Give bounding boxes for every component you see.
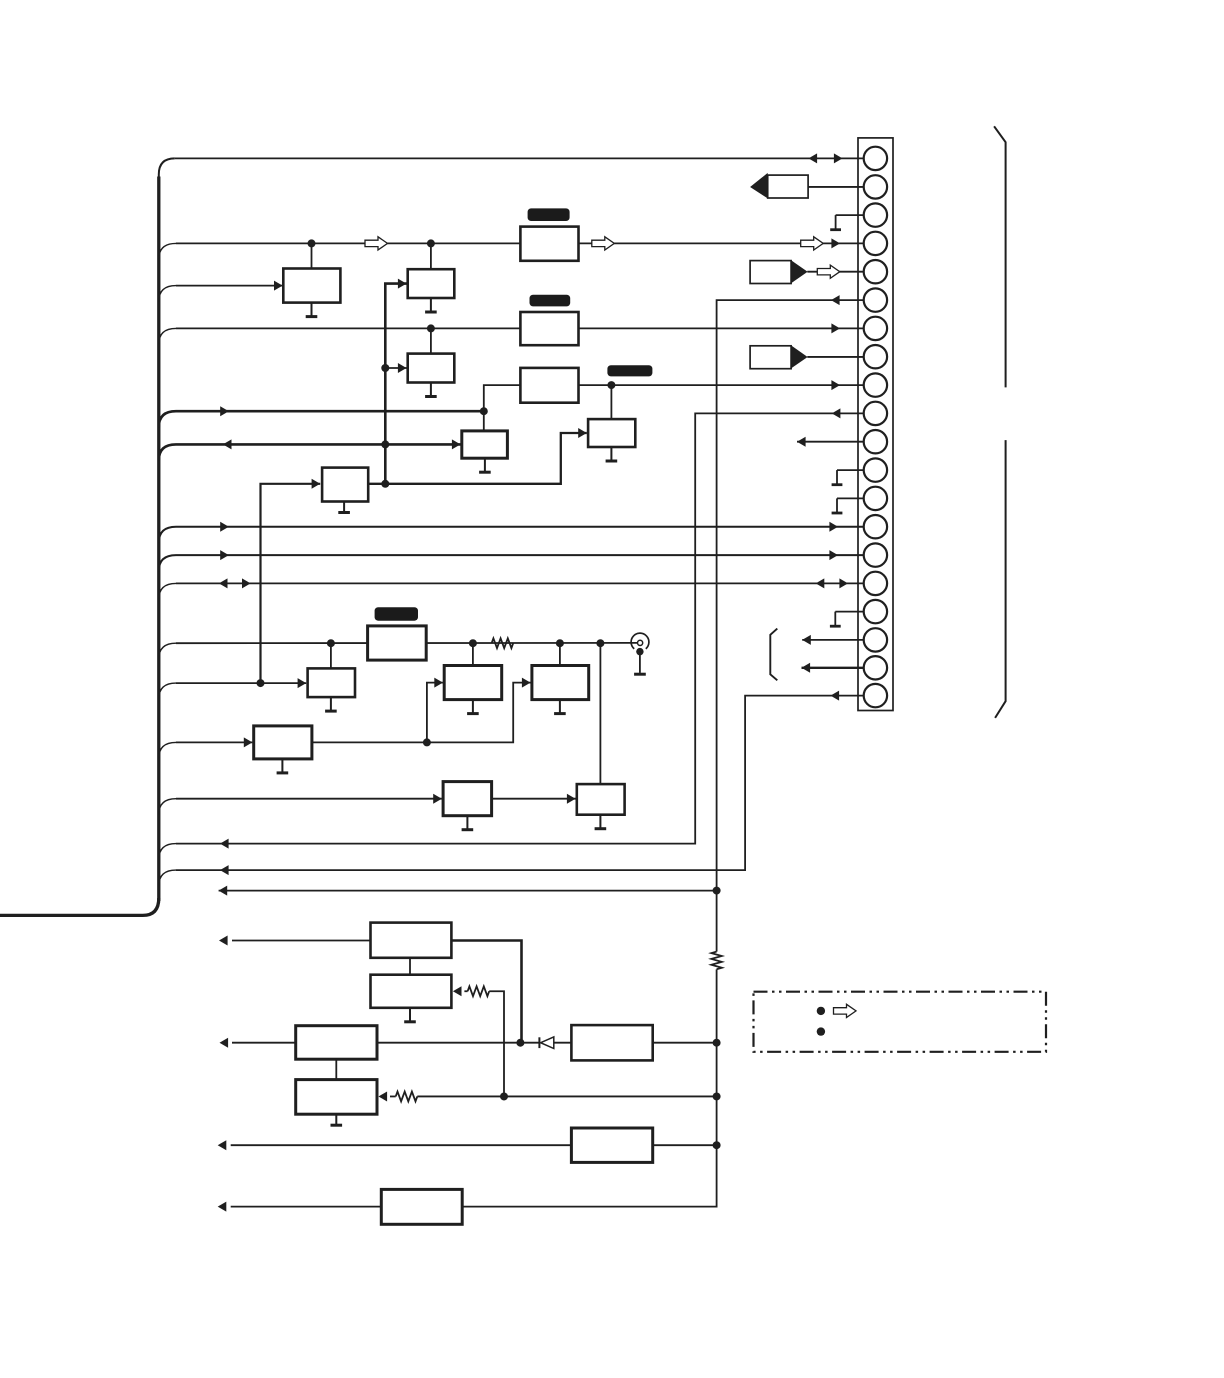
junction riser/R4 line [500,1092,508,1100]
pin 9 circle [864,373,887,396]
junction w10 above U13 [556,639,564,647]
arrowhead C1 output [219,936,228,946]
junction above U9 [607,381,615,389]
wire C3 right to diode and C5 [377,1042,539,1044]
arrowhead w9 bidir near trunk right [242,578,251,588]
ground below U15 [599,815,601,829]
ground below U9 [610,447,612,461]
wire pin 19 stub with arrow [802,667,876,669]
wire U14 output to U13 input [312,683,531,743]
wire w13 trunk to U16 input [159,799,176,815]
node A junction on w5 [480,407,488,415]
arrowhead w12 into U14 [244,737,253,747]
wire w10 trunk to jack J2 [159,643,176,659]
wire w8 trunk to pin 15 [159,555,176,571]
wire w4 trunk to pin 7 [159,328,176,344]
arrowhead w9 bidir near pin left [816,578,825,588]
wire node A stub down to U7 top [483,411,485,431]
wire U16 output to U15 input [492,798,576,800]
legend hollow flow arrow [834,1004,857,1017]
wire stub down to U9 top [610,385,612,419]
resistor R4 [396,1092,418,1102]
label bar L2 above U2 [530,295,571,307]
arrowhead pin 20 outgoing [831,691,840,701]
legend dash-dot box [754,992,1047,1052]
arrowhead bus B into U5 [398,279,407,289]
junction bus B on U8 output line [381,480,389,488]
junction w10 above U12 [469,639,477,647]
pin 7 circle [864,317,887,340]
arrowhead into C4 right side [379,1091,388,1101]
pin 18 circle [864,628,887,651]
arrowhead w16 outgoing left [219,886,228,896]
junction w10 above U10 [327,639,335,647]
arrowhead w5 direction [220,406,229,416]
wire riser to U12 input [427,683,443,743]
wire w7 trunk to pin 14 [159,527,176,543]
wire stub w2 down to U5 top [430,243,432,269]
block C4 [296,1080,377,1115]
arrowhead w9 bidir near pin right [839,578,848,588]
legend bullet 1 [817,1007,825,1015]
block C2 [371,975,452,1008]
pin 20 circle [864,684,887,707]
wire stub w10 down to U13 top [559,643,561,665]
wire pin 6 net down to U20 (long vertical) [717,300,864,952]
diode D1 (cathode left) [538,1037,540,1048]
block U13 [532,666,589,700]
label bar L4 above M1 [375,607,418,621]
legend bullet 2 [817,1027,825,1035]
arrowhead w11 into U10 [298,678,307,688]
flag tag at pin 2 (left pennant) [768,175,808,198]
block U8 [322,468,368,502]
wire stub w10 down to U12 top [472,643,474,665]
wire C6 output to left with arrow [231,1144,572,1146]
block U6 [408,354,455,383]
arrowhead w8 into pin 15 [829,550,838,560]
flag tag at pin 8 (right pennant) [750,346,791,369]
junction bus B branch to U6 [381,364,389,372]
wire bus B branch into U6 [385,367,406,369]
arrowhead w8 direction near trunk [220,550,229,560]
pin 16 circle [864,572,887,595]
wire w9 trunk to pin 16 [159,583,176,599]
junction R4 line on pin6 net [713,1092,721,1100]
wire riser from w11 to U8 input [261,484,321,683]
block C1 [371,923,452,958]
block U5 [408,269,455,298]
wire long stub w10 down to U15 top [599,643,601,784]
wire C3 output to left with arrow [232,1042,296,1044]
arrowhead into U9 [578,428,587,438]
connector J1 body [858,138,893,711]
arrowhead into U12 [434,678,443,688]
wire w12 trunk to U14 input [159,742,176,758]
pin 5 circle [864,260,887,283]
arrowhead w1 bidirectional right [834,153,843,163]
junction on w2 above U4 [308,239,316,247]
pin 10 circle [864,402,887,425]
arrowhead pin 11 outgoing [797,437,806,447]
junction riser to U12 [423,738,431,746]
flag tag at pin 5 (right pennant) [750,261,791,284]
wire pin 10 net left and down to trunk (w14) [176,413,864,843]
junction w6 with vertical bus B [381,440,389,448]
wire C7 output to left with arrow [231,1206,382,1208]
arrowhead w15 toward trunk [220,865,229,875]
wire R4 line to pin6 net [417,1095,716,1097]
wire C1 output to left with arrow [232,940,371,942]
resistor R1 on w10 [492,638,514,648]
block C7 (U20) [381,1189,462,1224]
wire pin 20 net left and down to trunk (w15) [176,696,864,871]
arrowhead into pin 9 [831,380,840,390]
wire stub w2 down to U4 top [311,243,313,268]
resistor R2 [468,986,490,996]
wire U8 output to U9 input [368,433,587,484]
hollow flow arrow after U1 [592,237,615,250]
block U4 [283,269,340,303]
wire C2 input with resistor R2 [464,990,467,992]
pin 19 circle [864,656,887,679]
pin 6 circle [864,288,887,311]
arrowhead w2 into pin 4 [831,238,840,248]
wire trunk bottom exit to left edge [0,898,159,915]
junction w16 with pin 6 net [713,887,721,895]
wire w11 trunk to U10 input [159,683,176,699]
arrowhead pin 19 outgoing [802,663,811,673]
ground below U16 [466,816,468,830]
pin 12 circle [864,458,887,481]
wire C1 right riser down to C3 output line [451,941,521,1043]
wire w6 trunk to U7 input [159,444,176,460]
arrowhead into U15 [567,794,576,804]
arrowhead pin 10 outgoing [832,408,841,418]
block U3 [520,368,578,403]
pin 13 circle [864,487,887,510]
hollow flow arrow on w2 [365,237,388,250]
arrowhead w6 toward trunk [223,439,232,449]
junction w11 riser to U8 [257,679,265,687]
wire pin 18 stub with arrow [802,639,875,641]
junction on w4 above U6 [427,324,435,332]
wire stub C3 bottom to C4 top [335,1059,337,1079]
ground below U10 [330,697,332,711]
ground below jack J2 [634,673,646,676]
bracket lower right (group brace bottom) [995,440,1006,718]
pin 4 circle [864,232,887,255]
block U15 [577,784,625,815]
block U12 [444,666,502,700]
ground below U13 [559,700,561,714]
bracket upper right (group brace top) [994,126,1006,387]
wire w5 trunk to node A [159,411,176,427]
arrowhead into C2 right side [453,986,462,996]
wire stub C1 bottom to C2 top [409,958,411,975]
ground below U8 [343,502,345,513]
arrowhead w6 into U7 [452,439,461,449]
termination tick pin 17 [835,611,863,613]
block U7 [462,431,508,458]
pin 14 circle [864,515,887,538]
hollow flow arrow pin 5 [817,265,840,278]
arrowhead w1 bidirectional left [809,153,818,163]
pin 1 circle [864,147,887,170]
block U1 [520,227,578,261]
arrowhead C6 output [218,1140,227,1150]
block M1 oscillator [368,626,427,660]
block C5 [571,1025,652,1060]
small group bracket left of pins 17-18 [770,629,777,681]
ground below U14 [281,759,283,773]
termination tick pin 13 [837,497,864,499]
wire R2 to riser [489,991,504,1096]
arrowhead C3 output [220,1038,229,1048]
wire w2 trunk to pin 4 [159,243,176,259]
pin 8 circle [864,345,887,368]
arrowhead pin 18 outgoing [802,635,811,645]
wire U3 output to pin 9 [579,384,876,386]
arrowhead into U13 [522,678,531,688]
arrowhead bus B into U6 [398,363,407,373]
arrowhead w13 into U16 [433,794,442,804]
junction C6 right on pin6 net [713,1141,721,1149]
junction C1 riser on C3 line [516,1039,524,1047]
junction C5 output on pin6 net [713,1039,721,1047]
junction on w2 above U5 [427,239,435,247]
arrowhead pin 6 outgoing [831,295,840,305]
arrowhead w9 bidir near trunk left [219,578,228,588]
wire jack J2 to ground [639,652,641,673]
label bar L3 right of U3 [607,365,652,376]
termination tick pin 12 [837,469,864,471]
block U9 [588,419,635,447]
ground below U5 [430,298,432,312]
wire w16 floating arrow to pin6 vertical [219,890,717,892]
junction below jack J2 [636,648,643,655]
wire C4 input with resistor R4 [390,1095,396,1097]
hollow flow arrow w2 near pin 4 [801,237,824,250]
arrowhead w4 into pin 7 [831,323,840,333]
jack J2 (phono) on w10 [631,633,649,649]
block C3 [296,1026,377,1060]
block U10 [308,668,355,697]
wire stub w10 down to U10 top [330,643,332,668]
arrowhead w3 into U4 [274,281,283,291]
pin 11 circle [864,430,887,453]
wire stub w4 down to U6 top [430,328,432,353]
wire vertical bus B with top branch into U5 [385,284,406,484]
pin 2 circle [864,175,887,198]
wire pin 11 stub with arrow [797,441,875,443]
wire w1 trunk to pin 1 [175,157,876,159]
resistor R3 on pin 6 vertical net [711,952,721,970]
pin 3 circle [864,203,887,226]
arrowhead w7 direction near trunk [220,522,229,532]
ground below U12 [472,700,474,714]
wire node A riser to U3 input [484,385,520,411]
ground below U7 [484,458,486,472]
block C6 [571,1128,652,1162]
wire w3 trunk to U4 input [159,286,176,302]
block U14 [254,726,312,759]
pin 17 circle [864,600,887,623]
wire trunk bus vertical [159,158,175,901]
wire C5 output to pin6 net [653,1042,717,1044]
arrowhead w14 toward trunk [220,839,229,849]
termination tick pin 3 [836,214,864,216]
arrowhead into U8 [312,479,321,489]
ground below U6 [430,383,432,397]
arrowhead C7 output [218,1202,227,1212]
block U2 [520,312,578,345]
wire diode to C5 [554,1042,572,1044]
block U16 [443,782,492,816]
junction w10 above U15 long riser [596,639,604,647]
arrowhead w7 into pin 14 [829,522,838,532]
ground below U4 [311,303,313,317]
wire C6 right to pin6 net [653,1144,717,1146]
pin 15 circle [864,543,887,566]
label bar L1 above U1 [528,208,570,221]
ground below C2 [409,1008,411,1022]
ground below C4 [335,1114,337,1125]
